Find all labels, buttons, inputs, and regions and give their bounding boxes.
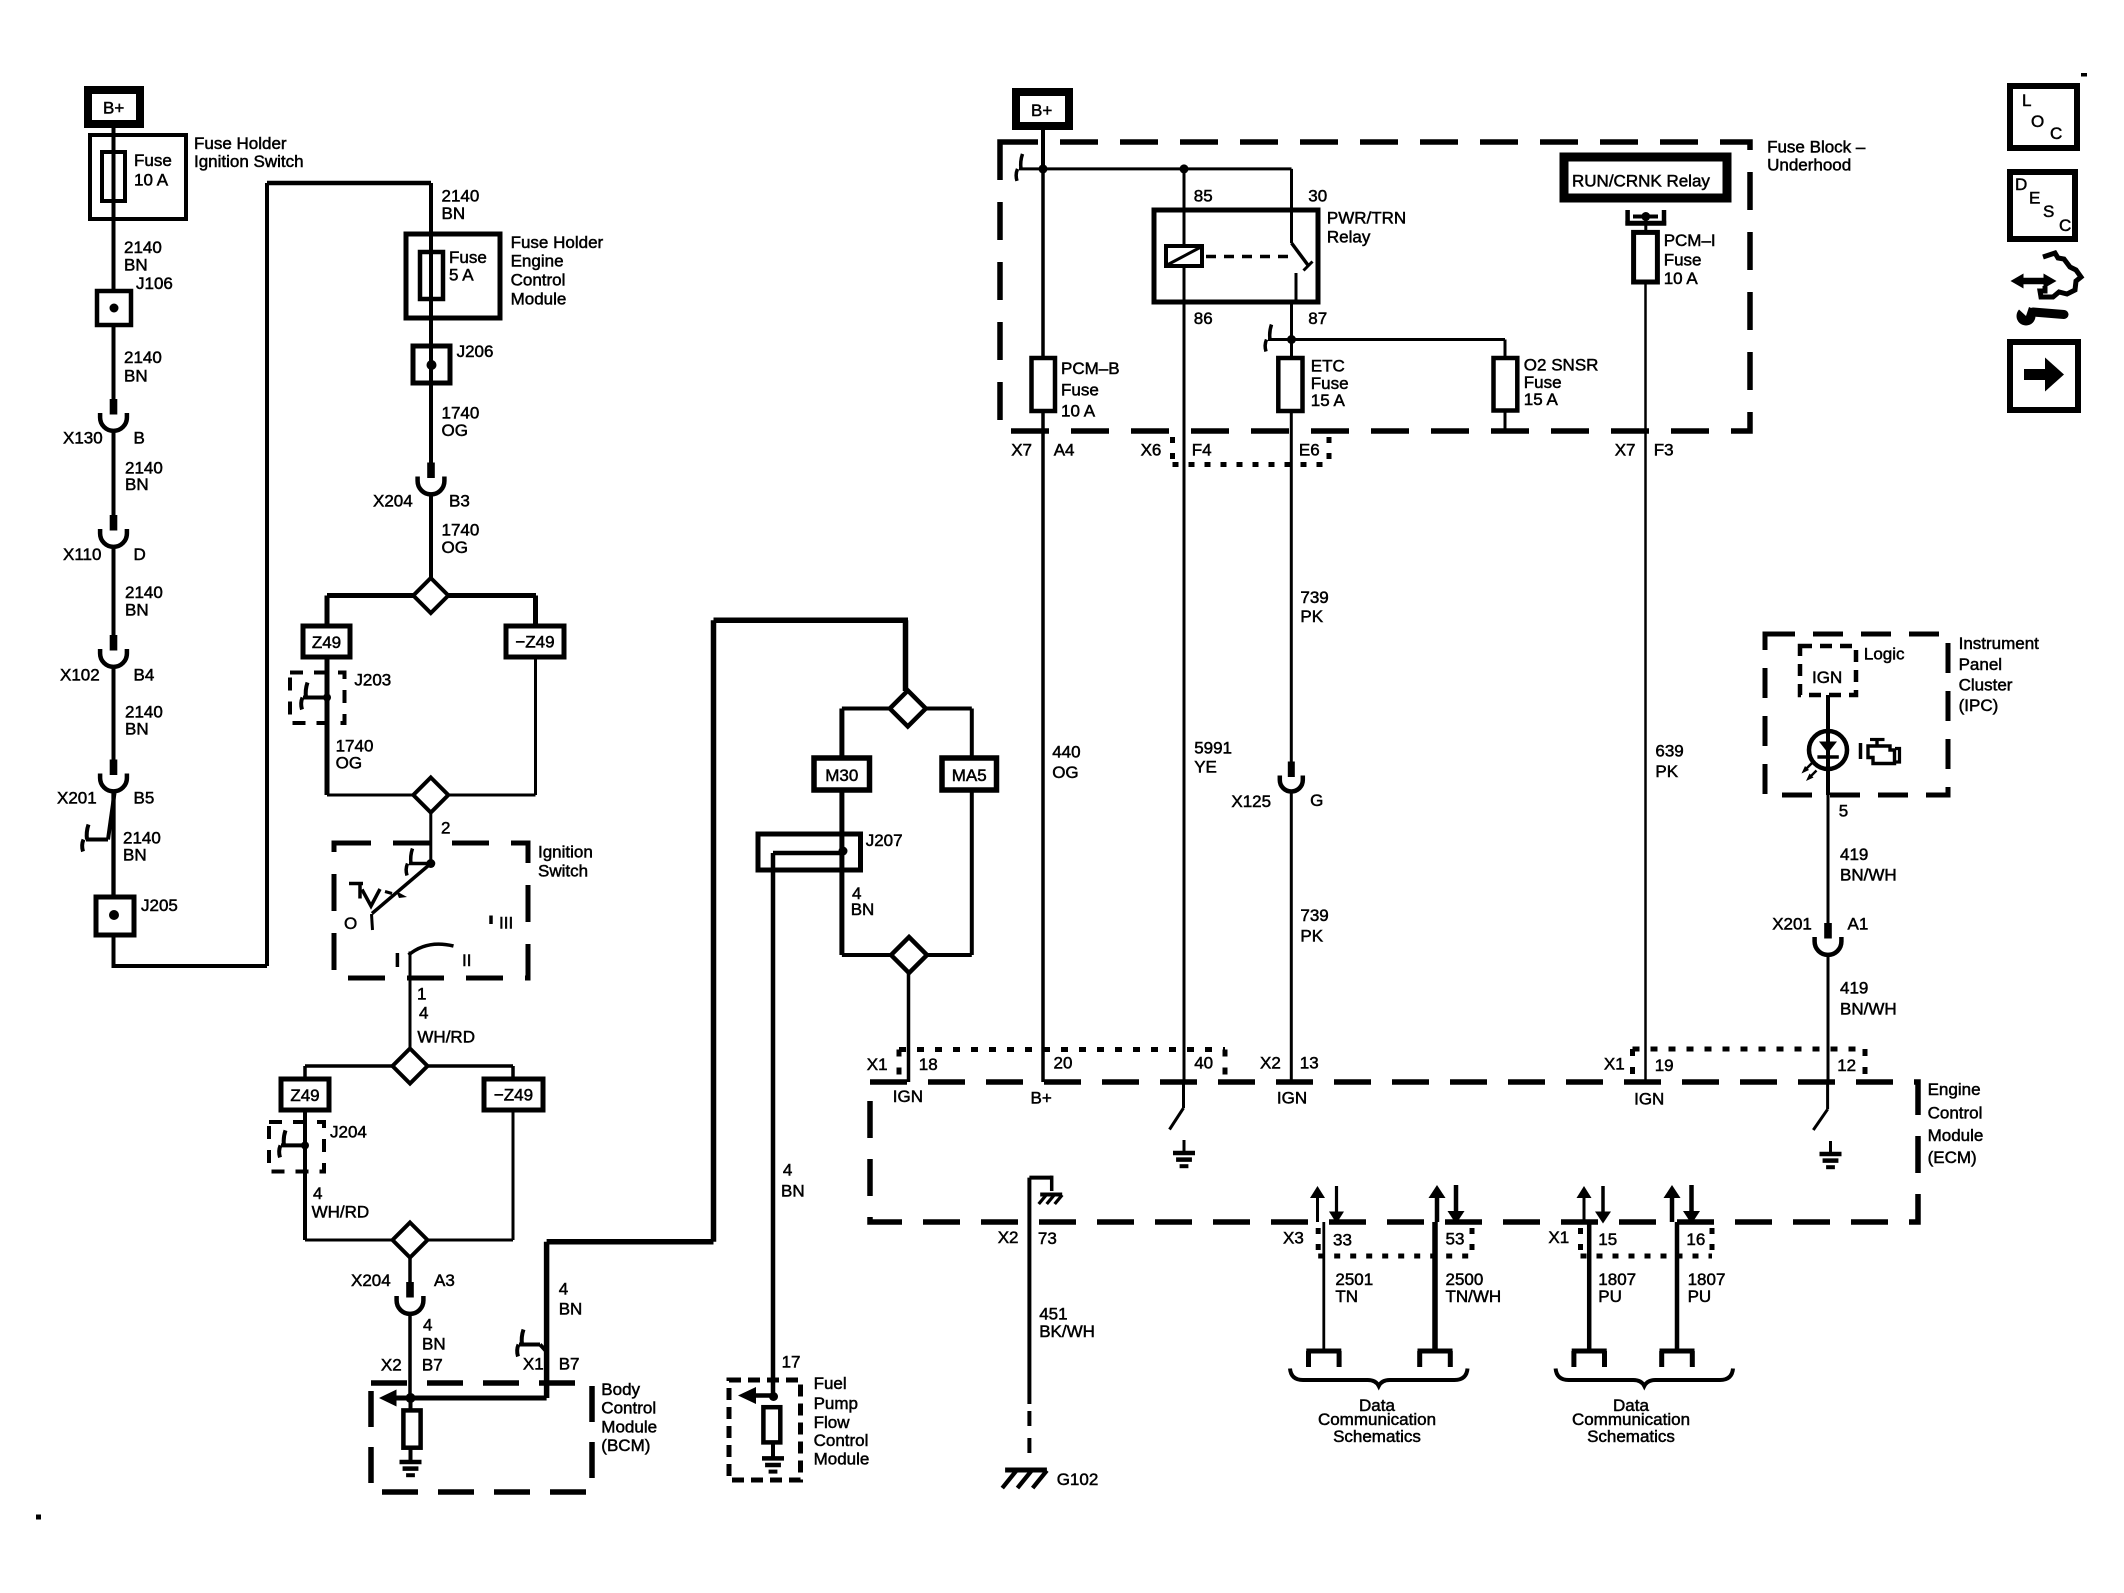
splice network horizontal (bottom) xyxy=(842,953,972,957)
svg-text:PCM–B: PCM–B xyxy=(1061,359,1120,378)
svg-text:E: E xyxy=(2029,189,2040,208)
svg-text:X102: X102 xyxy=(60,666,100,685)
svg-text:BN: BN xyxy=(125,600,149,619)
wire 1807 PU (pin 15) xyxy=(1587,1222,1592,1349)
svg-text:Fuse: Fuse xyxy=(1664,251,1702,270)
svg-text:X3: X3 xyxy=(1283,1229,1304,1248)
svg-text:C: C xyxy=(2050,124,2062,143)
ECM internal switch to ground (pin 12) xyxy=(1826,1082,1829,1109)
svg-text:BN: BN xyxy=(422,1335,446,1354)
icon vehicle with wrench xyxy=(2040,253,2081,297)
svg-text:IGN: IGN xyxy=(893,1087,923,1106)
node junction in BCM xyxy=(406,1393,416,1403)
check engine icon xyxy=(1859,743,1863,759)
wire 2501 TN xyxy=(1322,1222,1325,1349)
connector X125 pin G xyxy=(1288,762,1295,778)
svg-text:Module: Module xyxy=(601,1417,657,1436)
ECM internal switch to ground (pin 40) xyxy=(1182,1082,1185,1108)
wire 451 BK/WH to G102 xyxy=(1027,1247,1031,1404)
svg-text:X6: X6 xyxy=(1141,440,1162,459)
svg-text:Control: Control xyxy=(814,1431,869,1450)
svg-text:Fuse Holder: Fuse Holder xyxy=(194,134,287,153)
instrument panel cluster box (dashed) xyxy=(1765,634,1948,795)
ground (FPCM internal) xyxy=(771,1442,775,1457)
icon arrow box xyxy=(2010,342,2078,410)
svg-text:Panel: Panel xyxy=(1959,655,2002,674)
svg-text:Fuse Holder: Fuse Holder xyxy=(511,233,604,252)
svg-text:BN: BN xyxy=(442,204,466,223)
resistor (FPCM) xyxy=(763,1407,780,1442)
wire J106 to X130, label 2140 BN xyxy=(112,325,116,399)
svg-text:G: G xyxy=(1310,791,1323,810)
svg-text:B4: B4 xyxy=(134,666,155,685)
splice J106 xyxy=(97,291,131,325)
B+ bus line xyxy=(1043,167,1292,170)
wire -Z49 down xyxy=(534,657,537,795)
svg-text:87: 87 xyxy=(1308,309,1327,328)
svg-text:OG: OG xyxy=(1052,763,1078,782)
svg-text:13: 13 xyxy=(1300,1054,1319,1073)
svg-text:2140: 2140 xyxy=(124,238,162,257)
svg-text:J106: J106 xyxy=(136,274,173,293)
relay coil xyxy=(1183,210,1186,302)
svg-text:Fuse: Fuse xyxy=(1311,374,1349,393)
svg-text:B7: B7 xyxy=(422,1355,443,1374)
svg-text:739: 739 xyxy=(1300,588,1328,607)
svg-text:IGN: IGN xyxy=(1812,668,1842,687)
svg-text:Fuel: Fuel xyxy=(814,1374,847,1393)
svg-text:86: 86 xyxy=(1194,309,1213,328)
ignition switch box (dashed) xyxy=(334,843,528,978)
wire to relay pin 30 xyxy=(1290,169,1293,243)
connector X201 pin B5 xyxy=(110,760,118,776)
svg-text:MA5: MA5 xyxy=(952,766,987,785)
svg-text:4: 4 xyxy=(423,1315,432,1334)
svg-text:J205: J205 xyxy=(141,896,178,915)
relay switch blade (30 to 87) xyxy=(1292,243,1310,267)
svg-text:2: 2 xyxy=(441,818,450,837)
svg-text:(ECM): (ECM) xyxy=(1928,1148,1977,1167)
ECM top pin dotted box (X1: 19,12) xyxy=(1633,1047,1866,1052)
svg-text:5 A: 5 A xyxy=(449,266,474,285)
svg-text:B+: B+ xyxy=(103,99,124,118)
svg-text:WH/RD: WH/RD xyxy=(312,1203,370,1222)
svg-text:BN/WH: BN/WH xyxy=(1840,999,1897,1018)
svg-text:E6: E6 xyxy=(1299,440,1320,459)
wire feed to BCM X1 B7 (from J207 top bus) xyxy=(714,618,909,624)
svg-text:40: 40 xyxy=(1194,1054,1213,1073)
svg-text:Relay: Relay xyxy=(1327,228,1371,247)
svg-text:TN/WH: TN/WH xyxy=(1446,1287,1502,1306)
fuse holder ignition switch box xyxy=(90,135,186,219)
splice network top horizontal wire xyxy=(327,593,536,598)
svg-text:D: D xyxy=(134,545,146,564)
splice J207 (solid box) xyxy=(758,834,861,870)
icon LOC box xyxy=(2010,86,2077,148)
svg-text:Control: Control xyxy=(511,271,566,290)
svg-text:X125: X125 xyxy=(1231,792,1271,811)
resistor (BCM pull-down) xyxy=(409,1398,413,1410)
svg-text:BK/WH: BK/WH xyxy=(1039,1322,1095,1341)
svg-text:BN: BN xyxy=(125,475,149,494)
svg-text:15: 15 xyxy=(1598,1230,1617,1249)
svg-text:12: 12 xyxy=(1837,1056,1856,1075)
svg-text:WH/RD: WH/RD xyxy=(417,1028,475,1047)
svg-text:B: B xyxy=(134,429,145,448)
svg-text:X1: X1 xyxy=(1548,1228,1569,1247)
relay dashed link xyxy=(1206,255,1294,259)
svg-text:Ignition Switch: Ignition Switch xyxy=(194,152,304,171)
wire B+ into fuse block xyxy=(1041,126,1045,169)
svg-text:YE: YE xyxy=(1194,758,1217,777)
splice diamond (top) xyxy=(413,578,448,613)
page specks xyxy=(36,1515,41,1520)
svg-text:PU: PU xyxy=(1598,1287,1622,1306)
RUN/CRNK relay label box xyxy=(1564,157,1727,198)
svg-text:B+: B+ xyxy=(1031,1089,1052,1108)
ignition switch blade xyxy=(372,864,431,914)
IGN logic box (dashed) xyxy=(1800,646,1856,695)
svg-text:ETC: ETC xyxy=(1311,356,1345,375)
svg-text:BN: BN xyxy=(123,845,147,864)
svg-text:OG: OG xyxy=(442,421,468,440)
LED emission arrows xyxy=(1805,763,1813,771)
net -Z49 box xyxy=(533,596,538,627)
wire ignition switch pin 1 output xyxy=(409,952,412,1049)
svg-text:Schematics: Schematics xyxy=(1333,1427,1421,1446)
svg-text:BN: BN xyxy=(559,1300,583,1319)
FPCM internal arrow xyxy=(755,1393,773,1398)
svg-text:Instrument: Instrument xyxy=(1959,634,2040,653)
wire X130 to X110, label 2140 BN xyxy=(112,431,116,515)
svg-text:B5: B5 xyxy=(134,788,155,807)
connector X204 pin B3 xyxy=(427,463,435,479)
svg-text:S: S xyxy=(2043,202,2054,221)
svg-text:X7: X7 xyxy=(1615,440,1636,459)
svg-text:O: O xyxy=(2031,112,2044,131)
connector X201 pin A1 xyxy=(1824,923,1832,939)
svg-text:OG: OG xyxy=(336,753,362,772)
O2 SNSR fuse 15 A xyxy=(1494,358,1518,411)
svg-text:Module: Module xyxy=(1928,1126,1984,1145)
svg-text:639: 639 xyxy=(1655,742,1683,761)
serial data arrows at pin 15 xyxy=(1583,1196,1586,1222)
svg-text:−Z49: −Z49 xyxy=(515,632,554,651)
position III xyxy=(489,916,493,925)
ETC fuse 15 A xyxy=(1278,358,1302,411)
svg-text:PU: PU xyxy=(1688,1287,1712,1306)
net Z49 box xyxy=(303,626,350,657)
svg-text:2140: 2140 xyxy=(124,348,162,367)
wire J207 tap to fuel pump module, label 4 BN xyxy=(771,853,776,1397)
svg-text:1740: 1740 xyxy=(442,404,480,423)
net -Z49 box (2) xyxy=(511,1066,515,1079)
svg-text:451: 451 xyxy=(1039,1304,1067,1323)
body control module box (dashed) xyxy=(371,1383,592,1492)
wire IGN to indicator xyxy=(1826,695,1830,795)
svg-text:O2 SNSR: O2 SNSR xyxy=(1524,355,1599,374)
ground (BCM internal) xyxy=(409,1448,413,1461)
dashed pointer to blade xyxy=(385,892,392,894)
svg-text:Engine: Engine xyxy=(1928,1080,1981,1099)
svg-text:J206: J206 xyxy=(457,342,494,361)
svg-text:BN: BN xyxy=(124,367,148,386)
wire down to fuse holder ECM xyxy=(429,183,433,463)
svg-text:L: L xyxy=(2022,91,2031,110)
wire X102 to X201, label 2140 BN xyxy=(112,667,116,760)
fuse block underhood box (dashed) xyxy=(1000,142,1750,431)
wire to M30 xyxy=(839,709,844,759)
svg-text:10 A: 10 A xyxy=(1061,402,1096,421)
svg-text:J203: J203 xyxy=(354,671,391,690)
svg-text:F3: F3 xyxy=(1654,440,1674,459)
wire label 1740 OG xyxy=(429,495,433,579)
svg-text:(IPC): (IPC) xyxy=(1959,696,1999,715)
wire B+ to fuse holder ignition switch xyxy=(112,124,116,152)
lead hook at X201 xyxy=(87,825,89,840)
splice J203 (dashed) xyxy=(290,673,345,724)
splice network 2 top horizontal xyxy=(305,1064,513,1068)
svg-text:73: 73 xyxy=(1038,1229,1057,1248)
BCM internal bus with arrow xyxy=(396,1396,547,1401)
svg-text:Control: Control xyxy=(601,1399,656,1418)
wire Z49 to J203 to bottom xyxy=(325,657,330,795)
svg-text:TN: TN xyxy=(1335,1287,1358,1306)
PWR/TRN relay box xyxy=(1154,210,1318,302)
svg-text:X2: X2 xyxy=(1260,1054,1281,1073)
net M30 box xyxy=(814,758,870,790)
svg-text:PWR/TRN: PWR/TRN xyxy=(1327,209,1406,228)
splice diamond (top) xyxy=(890,691,926,727)
wire ETC to X125, 739 PK xyxy=(1290,411,1293,762)
PCM-B fuse 10 A xyxy=(1041,169,1045,1082)
wire to Z49 xyxy=(325,596,330,627)
svg-text:18: 18 xyxy=(919,1055,938,1074)
svg-text:X204: X204 xyxy=(373,492,413,511)
svg-text:PK: PK xyxy=(1300,927,1323,946)
svg-text:33: 33 xyxy=(1333,1230,1352,1249)
svg-text:J207: J207 xyxy=(866,831,903,850)
svg-text:10 A: 10 A xyxy=(134,171,169,190)
svg-text:Ignition: Ignition xyxy=(538,843,593,862)
ignition switch contact hook and dot xyxy=(411,849,413,864)
svg-text:1740: 1740 xyxy=(442,520,480,539)
svg-text:G102: G102 xyxy=(1057,1470,1099,1489)
brace data communication schematics (left) xyxy=(1290,1369,1468,1387)
svg-text:Cluster: Cluster xyxy=(1959,676,2013,695)
svg-text:Fuse: Fuse xyxy=(1061,380,1099,399)
svg-text:419: 419 xyxy=(1840,845,1868,864)
wire J205 down, right, and up to ECM fuse feed xyxy=(112,935,116,966)
wire from top bus down to splice diamond xyxy=(903,620,909,691)
splice diamond (bottom) xyxy=(393,1223,428,1258)
ECM ground pin X2 73 with chassis comb xyxy=(1027,1178,1031,1247)
brace data communication schematics (right) xyxy=(1556,1369,1733,1387)
svg-text:X110: X110 xyxy=(63,545,101,564)
wire X201 to J205, label 2140 BN xyxy=(111,792,115,898)
svg-text:II: II xyxy=(462,951,471,970)
svg-text:Flow: Flow xyxy=(814,1413,851,1432)
svg-text:A4: A4 xyxy=(1054,440,1075,459)
svg-text:1: 1 xyxy=(417,984,426,1003)
wire to relay pin 85 xyxy=(1183,169,1186,210)
relay output bracket to PCM-I fuse xyxy=(1625,210,1630,226)
svg-text:16: 16 xyxy=(1686,1230,1705,1249)
fuse F (ECM) 5 A xyxy=(420,252,443,299)
svg-text:15 A: 15 A xyxy=(1524,390,1559,409)
svg-text:BN: BN xyxy=(124,256,148,275)
svg-text:Underhood: Underhood xyxy=(1767,155,1851,174)
svg-text:Pump: Pump xyxy=(814,1394,858,1413)
svg-text:Body: Body xyxy=(601,1380,640,1399)
svg-text:III: III xyxy=(499,913,513,932)
splice network 2 bottom horizontal xyxy=(305,1239,513,1242)
svg-text:Control: Control xyxy=(1928,1104,1983,1123)
svg-text:53: 53 xyxy=(1446,1229,1465,1248)
svg-text:X201: X201 xyxy=(57,788,97,807)
splice diamond (bottom) xyxy=(891,937,927,973)
connector X204 pin A3 xyxy=(408,1258,412,1283)
svg-text:2140: 2140 xyxy=(442,186,480,205)
svg-text:30: 30 xyxy=(1308,187,1327,206)
svg-text:BN: BN xyxy=(125,719,149,738)
power symbol B+ (right) xyxy=(1016,92,1069,126)
connector X110 pin D xyxy=(110,515,118,531)
PCM-I fuse 10 A xyxy=(1634,232,1658,282)
engine control module box (dashed) xyxy=(870,1082,1918,1222)
svg-text:X1: X1 xyxy=(867,1055,888,1074)
wire to BCM, label 4 BN xyxy=(408,1314,412,1398)
svg-text:BN: BN xyxy=(851,900,875,919)
fuel pump flow control module box (dashed) xyxy=(729,1380,801,1480)
svg-text:739: 739 xyxy=(1300,906,1328,925)
svg-text:17: 17 xyxy=(782,1353,801,1372)
svg-text:440: 440 xyxy=(1052,743,1080,762)
svg-text:F4: F4 xyxy=(1192,440,1212,459)
wire to ECM pin X1 18 xyxy=(907,973,911,1082)
icon DESC box xyxy=(2010,172,2075,239)
svg-text:19: 19 xyxy=(1655,1056,1674,1075)
svg-text:10 A: 10 A xyxy=(1664,269,1699,288)
serial data arrows at pin 16 xyxy=(1670,1196,1675,1222)
wire to ignition switch, pin 2 xyxy=(429,813,432,864)
splice network bottom horizontal wire xyxy=(327,794,536,797)
relay pin 87 wire xyxy=(1290,302,1293,358)
svg-text:Z49: Z49 xyxy=(312,633,341,652)
lead hook at fuse block feed xyxy=(1021,154,1023,169)
ECM top pin dotted box (X1: 18,20,40) xyxy=(899,1047,1225,1052)
splice diamond (top) xyxy=(393,1049,428,1084)
svg-text:Z49: Z49 xyxy=(290,1086,319,1105)
fuse F (Ignition Switch) 10 A xyxy=(112,152,116,291)
wire X110 to X102, label 2140 BN xyxy=(112,547,116,635)
svg-text:Module: Module xyxy=(511,289,567,308)
wire X125 to ECM pin X2 13, 739 PK xyxy=(1290,792,1293,1083)
page mark xyxy=(2081,73,2087,77)
svg-text:C: C xyxy=(2059,216,2071,235)
wire to Z49 (2) xyxy=(303,1066,307,1079)
svg-text:A1: A1 xyxy=(1848,915,1869,934)
svg-text:BN: BN xyxy=(781,1181,805,1200)
lead hook at BCM X1 B7 xyxy=(522,1330,524,1345)
svg-text:20: 20 xyxy=(1054,1054,1073,1073)
position I and II with arc xyxy=(396,953,400,967)
net Z49 box (2) xyxy=(281,1079,329,1110)
svg-text:4: 4 xyxy=(559,1279,568,1298)
svg-text:Schematics: Schematics xyxy=(1587,1427,1675,1446)
svg-text:Engine: Engine xyxy=(511,252,564,271)
splice J204 (dashed) xyxy=(269,1122,324,1172)
svg-text:B7: B7 xyxy=(559,1354,580,1373)
svg-text:J204: J204 xyxy=(330,1123,367,1142)
indicator LED (MIL) xyxy=(1809,731,1847,769)
power symbol B+ (left) xyxy=(88,90,140,124)
dotted pin box F4-E6 xyxy=(1170,437,1175,465)
splice J206 xyxy=(413,346,450,383)
svg-text:419: 419 xyxy=(1840,979,1868,998)
wire Z49 to J204 down xyxy=(303,1110,307,1240)
wire PCM-I to ECM pin X1 19, 639 PK xyxy=(1644,282,1647,1082)
ground G102 (chassis) xyxy=(1005,1468,1047,1473)
connector X102 pin B4 xyxy=(110,635,118,651)
svg-text:X1: X1 xyxy=(1604,1055,1625,1074)
svg-text:OG: OG xyxy=(442,538,468,557)
svg-text:Fuse: Fuse xyxy=(449,248,487,267)
svg-text:X1: X1 xyxy=(523,1354,544,1373)
fuse holder engine control module box xyxy=(406,234,500,318)
svg-text:−Z49: −Z49 xyxy=(494,1085,533,1104)
wire 87 junction to O2 SNSR fuse xyxy=(1292,338,1506,341)
svg-text:Fuse Block –: Fuse Block – xyxy=(1767,137,1866,156)
svg-text:Fuse: Fuse xyxy=(1524,373,1562,392)
serial data arrows at pin 33 xyxy=(1316,1196,1319,1222)
ignition switch key symbol xyxy=(349,882,363,886)
svg-text:X201: X201 xyxy=(1772,915,1812,934)
connector X130 pin B xyxy=(110,399,118,415)
svg-text:(BCM): (BCM) xyxy=(601,1436,650,1455)
lead hook at 87 junction xyxy=(1270,325,1272,340)
splice J205 xyxy=(96,897,134,935)
svg-text:RUN/CRNK Relay: RUN/CRNK Relay xyxy=(1572,172,1710,191)
svg-text:IGN: IGN xyxy=(1634,1089,1664,1108)
relay pin 86 wire, 5991 YE to ECM pin 40 xyxy=(1183,302,1186,1082)
svg-text:X7: X7 xyxy=(1011,440,1032,459)
svg-text:15 A: 15 A xyxy=(1311,391,1346,410)
svg-text:BN/WH: BN/WH xyxy=(1840,866,1897,885)
svg-text:O: O xyxy=(344,914,357,933)
svg-text:5: 5 xyxy=(1839,802,1848,821)
svg-text:Logic: Logic xyxy=(1864,644,1905,663)
svg-text:PK: PK xyxy=(1655,762,1678,781)
svg-text:X2: X2 xyxy=(381,1355,402,1374)
svg-text:D: D xyxy=(2015,175,2027,194)
net MA5 box xyxy=(970,709,974,759)
svg-text:IGN: IGN xyxy=(1277,1089,1307,1108)
wire X201 to ECM pin 12, 419 BN/WH xyxy=(1827,955,1830,1082)
svg-text:B3: B3 xyxy=(449,492,470,511)
svg-text:PK: PK xyxy=(1300,607,1323,626)
splice diamond (bottom) xyxy=(413,778,448,813)
svg-text:4: 4 xyxy=(313,1184,322,1203)
svg-text:Switch: Switch xyxy=(538,862,588,881)
svg-text:4: 4 xyxy=(419,1003,428,1022)
svg-text:4: 4 xyxy=(783,1161,792,1180)
serial data arrows at pin 53 xyxy=(1435,1196,1440,1222)
svg-text:X130: X130 xyxy=(63,429,103,448)
svg-text:PCM–I: PCM–I xyxy=(1664,231,1716,250)
wire M30 through J207 down xyxy=(839,790,844,955)
svg-text:85: 85 xyxy=(1194,187,1213,206)
